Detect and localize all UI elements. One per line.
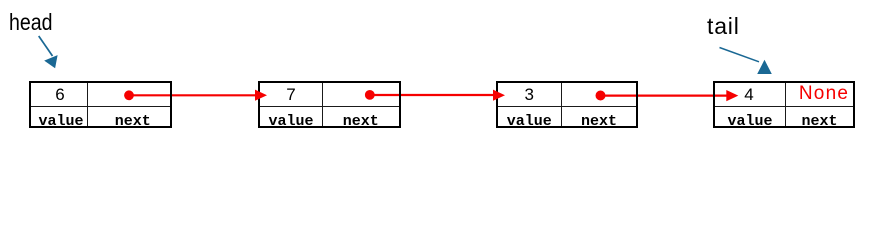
wire: pointer line node3 -> node4 [601,94,728,96]
tail label [707,13,740,40]
node 1 next dot [124,90,134,100]
node 3 table (value 3) [496,81,639,128]
node 1 table (value 6) [29,81,173,128]
tail arrowhead triangle [757,60,772,74]
wire: pointer line node1 -> node2 [129,94,257,96]
node 2 table (value 7) [258,81,401,128]
tail arrow line [720,48,760,62]
node 3 next dot [596,91,606,101]
head arrowhead [44,55,57,68]
node 2 next dot [365,90,375,100]
node 4 table (value 4, next None) [713,81,855,128]
arrowhead into node 2 [255,90,267,101]
overlay graphics: dots, arrowheads, blue arrows [0,0,886,143]
head arrow line [39,36,53,56]
head label [9,9,52,36]
wire: pointer line node2 -> node3 [370,94,495,96]
arrowhead into node 4 [726,90,738,101]
arrowhead into node 3 [493,90,505,101]
red next-pointer lines (behind table borders) [0,0,886,143]
